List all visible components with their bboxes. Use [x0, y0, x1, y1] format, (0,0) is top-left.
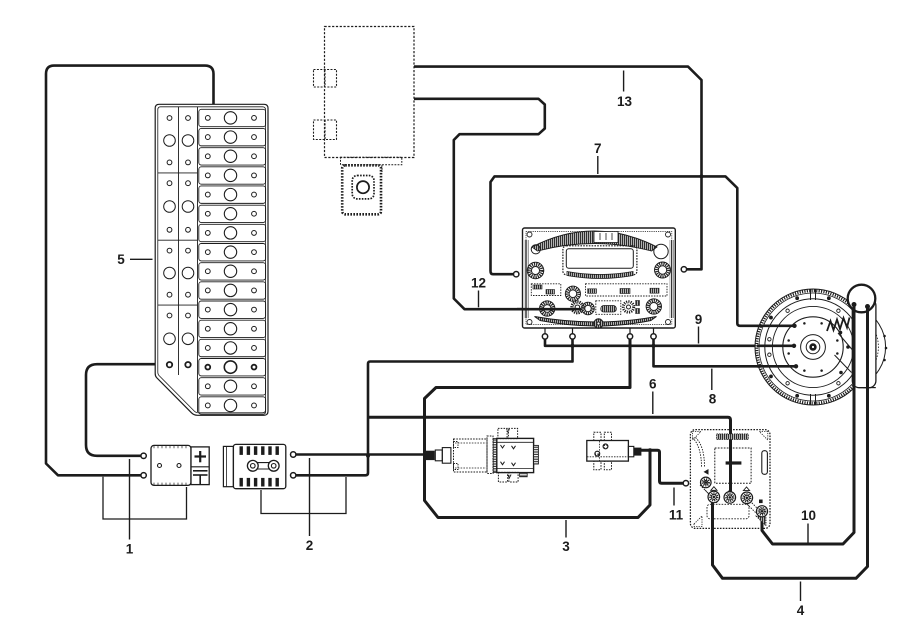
svg-text:1: 1: [126, 542, 134, 557]
svg-text:13: 13: [617, 94, 633, 109]
svg-text:6: 6: [649, 377, 657, 392]
svg-text:2: 2: [306, 538, 314, 553]
svg-text:9: 9: [695, 312, 703, 327]
svg-text:4: 4: [797, 603, 805, 618]
svg-text:3: 3: [562, 539, 570, 554]
svg-text:7: 7: [594, 141, 602, 156]
svg-text:8: 8: [709, 392, 717, 407]
svg-text:12: 12: [471, 276, 486, 291]
svg-text:10: 10: [801, 508, 816, 523]
svg-text:5: 5: [117, 252, 125, 267]
svg-text:11: 11: [669, 508, 684, 523]
